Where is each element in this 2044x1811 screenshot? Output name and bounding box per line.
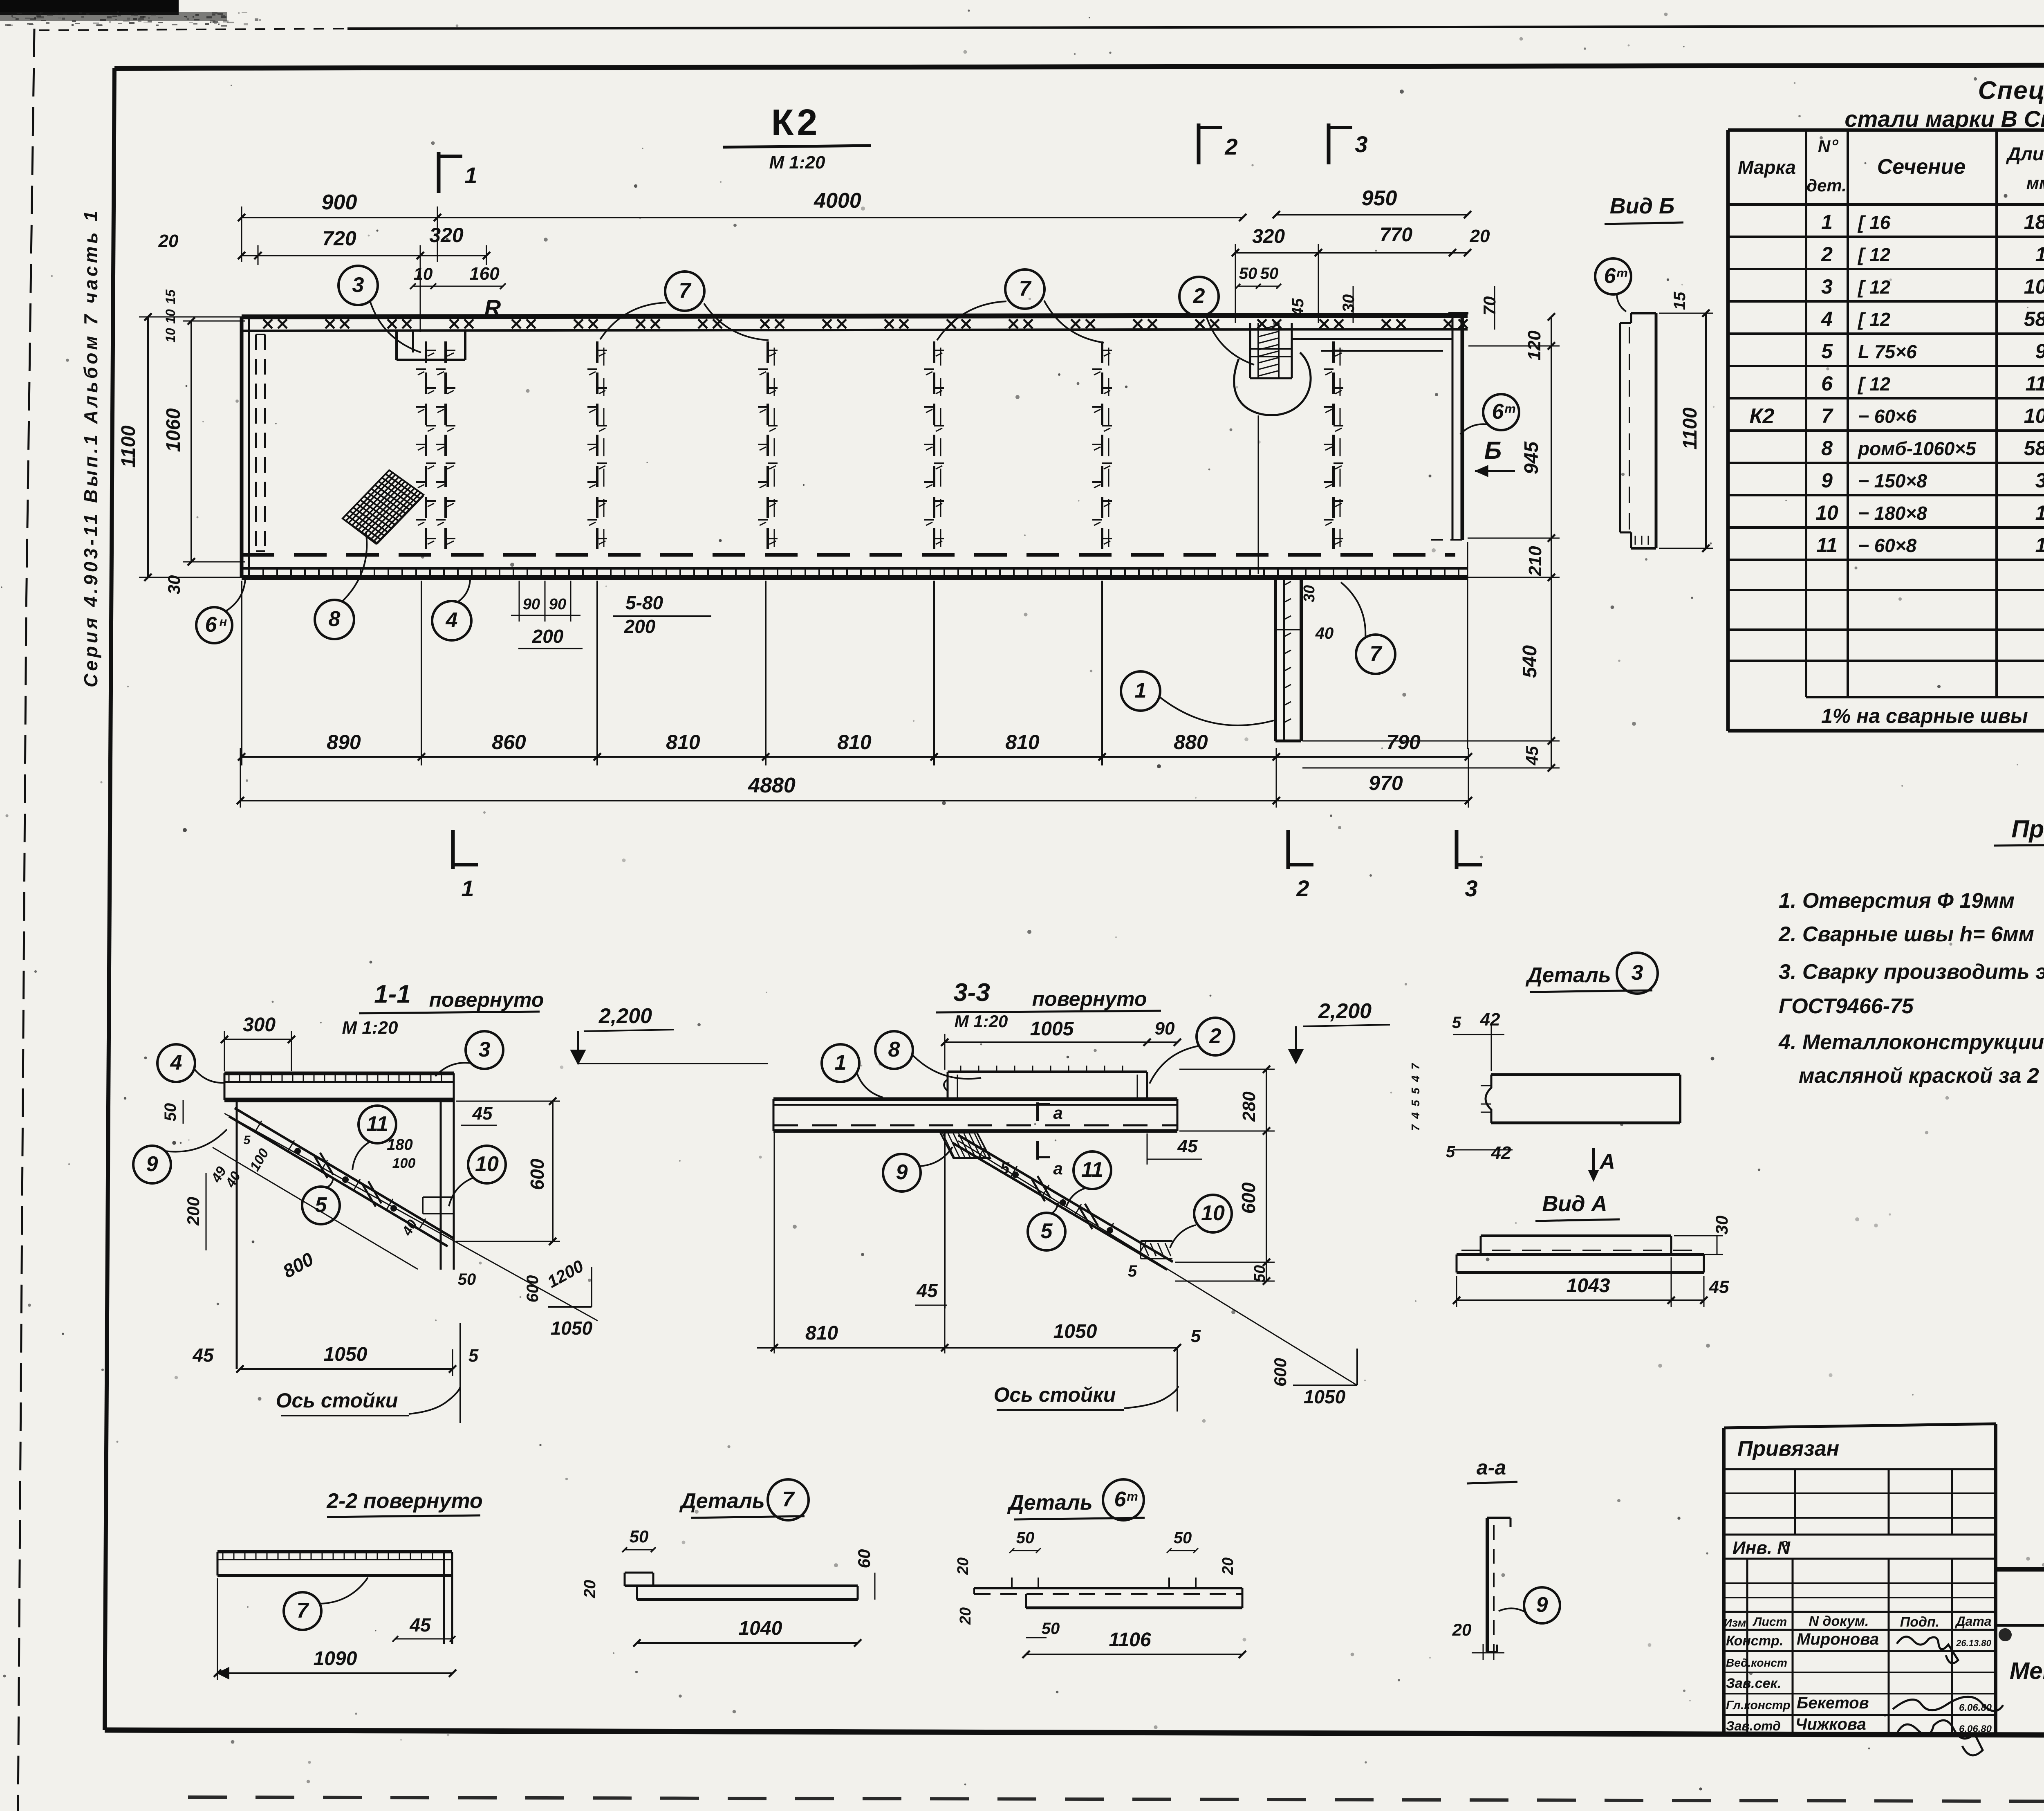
svg-text:50: 50: [630, 1527, 649, 1546]
svg-text:90: 90: [523, 596, 540, 613]
svg-text:42: 42: [1491, 1143, 1511, 1163]
svg-text:180: 180: [2035, 501, 2044, 524]
svg-text:810: 810: [837, 731, 872, 754]
svg-text:70: 70: [1480, 296, 1499, 316]
svg-text:8: 8: [1821, 437, 1833, 460]
svg-text:30: 30: [1712, 1216, 1731, 1235]
svg-text:5810: 5810: [2024, 437, 2044, 460]
svg-text:Подп.: Подп.: [1900, 1614, 1939, 1630]
svg-text:повернуто: повернуто: [429, 988, 544, 1011]
svg-text:8: 8: [888, 1038, 900, 1061]
svg-text:880: 880: [1174, 731, 1208, 754]
svg-text:− 60×8: − 60×8: [1858, 535, 1917, 556]
svg-text:9: 9: [146, 1152, 158, 1176]
svg-text:1050: 1050: [1304, 1386, 1346, 1407]
svg-text:Металлоконструкция: Металлоконструкция: [2010, 1658, 2044, 1684]
svg-text:200: 200: [532, 626, 564, 647]
svg-text:1088: 1088: [2024, 275, 2044, 298]
svg-text:А: А: [1599, 1150, 1615, 1174]
svg-text:1050: 1050: [1053, 1321, 1097, 1342]
svg-text:Вед.конст: Вед.конст: [1726, 1656, 1787, 1669]
svg-text:5: 5: [1409, 1088, 1422, 1094]
svg-text:890: 890: [327, 731, 361, 754]
svg-text:20: 20: [957, 1607, 974, 1625]
svg-text:1060: 1060: [163, 408, 184, 452]
svg-text:1040: 1040: [739, 1618, 782, 1639]
svg-text:N докум.: N докум.: [1809, 1614, 1869, 1629]
svg-text:6: 6: [205, 613, 217, 637]
svg-text:1: 1: [1135, 679, 1147, 702]
svg-text:770: 770: [1380, 224, 1412, 246]
svg-text:1: 1: [464, 162, 477, 188]
svg-text:Вид А: Вид А: [1542, 1192, 1607, 1216]
svg-text:810: 810: [666, 731, 700, 754]
svg-text:4880: 4880: [748, 774, 796, 797]
svg-text:20: 20: [581, 1580, 599, 1599]
svg-text:50: 50: [1239, 265, 1257, 283]
svg-text:45: 45: [916, 1280, 938, 1301]
svg-text:Миронова: Миронова: [1797, 1630, 1879, 1648]
svg-text:8: 8: [329, 607, 341, 631]
svg-text:3: 3: [1355, 131, 1367, 157]
svg-text:Ось стойки: Ось стойки: [276, 1389, 398, 1412]
svg-text:3: 3: [1632, 961, 1643, 985]
svg-text:2. Сварные швы h= 6мм: 2. Сварные швы h= 6мм: [1778, 922, 2034, 946]
svg-text:200: 200: [184, 1197, 203, 1226]
svg-text:т: т: [1616, 266, 1628, 280]
svg-text:11: 11: [366, 1112, 388, 1136]
svg-text:50: 50: [1042, 1620, 1060, 1638]
svg-text:Марка: Марка: [1738, 157, 1796, 178]
svg-text:45: 45: [472, 1104, 493, 1124]
svg-text:160: 160: [469, 264, 500, 284]
svg-text:4000: 4000: [814, 189, 861, 213]
svg-text:[ 12: [ 12: [1857, 276, 1891, 298]
svg-text:100: 100: [392, 1156, 416, 1171]
svg-text:6.06.80: 6.06.80: [1959, 1723, 1992, 1735]
svg-text:3: 3: [352, 273, 364, 297]
svg-text:7: 7: [1409, 1063, 1422, 1070]
svg-text:− 60×6: − 60×6: [1858, 406, 1917, 427]
svg-text:1860: 1860: [2024, 211, 2044, 233]
svg-text:45: 45: [1522, 746, 1542, 765]
svg-text:[ 12: [ 12: [1857, 309, 1891, 330]
svg-text:[ 16: [ 16: [1857, 212, 1891, 233]
svg-text:50: 50: [458, 1270, 476, 1288]
svg-text:ромб-1060×5: ромб-1060×5: [1857, 438, 1977, 459]
svg-text:Длина,: Длина,: [2006, 143, 2044, 164]
svg-text:5: 5: [1409, 1100, 1422, 1106]
svg-text:дет.: дет.: [1806, 176, 1847, 195]
svg-text:600: 600: [1238, 1182, 1259, 1214]
svg-text:− 180×8: − 180×8: [1858, 503, 1927, 524]
svg-text:повернуто: повернуто: [1032, 987, 1147, 1010]
svg-text:Привязан: Привязан: [1737, 1437, 1839, 1461]
svg-text:1: 1: [835, 1051, 847, 1075]
svg-text:100: 100: [2035, 534, 2044, 557]
svg-text:[ 12: [ 12: [1857, 244, 1891, 265]
svg-text:Деталь: Деталь: [679, 1489, 765, 1513]
svg-text:15: 15: [1671, 292, 1689, 310]
svg-text:5: 5: [1000, 1159, 1010, 1177]
svg-text:2: 2: [1224, 134, 1237, 159]
svg-text:[ 12: [ 12: [1857, 373, 1891, 395]
svg-text:300: 300: [2035, 469, 2044, 492]
svg-text:10: 10: [163, 328, 178, 343]
svg-text:5: 5: [1128, 1262, 1137, 1280]
svg-text:6: 6: [1492, 400, 1504, 424]
svg-text:600: 600: [524, 1275, 542, 1303]
svg-text:7: 7: [1370, 642, 1383, 666]
svg-text:мм: мм: [2026, 173, 2044, 193]
svg-text:Примечания:: Примечания:: [2011, 815, 2044, 843]
svg-text:2: 2: [1209, 1024, 1221, 1048]
svg-text:50: 50: [161, 1103, 179, 1122]
svg-text:5-80: 5-80: [625, 592, 663, 613]
svg-text:3: 3: [479, 1038, 491, 1061]
svg-text:Сечение: Сечение: [1877, 155, 1966, 179]
svg-text:26.13.80: 26.13.80: [1956, 1638, 1991, 1648]
svg-text:9: 9: [1536, 1593, 1548, 1617]
svg-text:4: 4: [446, 608, 458, 632]
svg-text:45: 45: [1177, 1136, 1198, 1156]
svg-text:R: R: [484, 295, 501, 321]
svg-text:7: 7: [297, 1599, 309, 1622]
svg-text:а-а: а-а: [1477, 1456, 1506, 1479]
svg-text:5: 5: [468, 1346, 479, 1366]
svg-text:1: 1: [461, 875, 474, 901]
svg-text:7: 7: [782, 1488, 795, 1511]
svg-text:900: 900: [322, 191, 357, 214]
svg-text:45: 45: [1709, 1277, 1729, 1297]
svg-text:810: 810: [1005, 731, 1040, 754]
svg-text:320: 320: [1252, 226, 1285, 247]
svg-text:90: 90: [549, 596, 566, 613]
svg-text:20: 20: [1470, 226, 1490, 246]
svg-text:9: 9: [1821, 469, 1833, 492]
svg-text:45: 45: [409, 1614, 431, 1636]
svg-text:1: 1: [1821, 211, 1833, 233]
svg-text:90: 90: [1155, 1019, 1175, 1039]
svg-text:1106: 1106: [2025, 372, 2044, 395]
svg-text:1090: 1090: [314, 1648, 357, 1670]
svg-text:50: 50: [1174, 1529, 1192, 1547]
svg-text:11: 11: [1816, 534, 1838, 557]
svg-text:Деталь: Деталь: [1525, 963, 1611, 987]
svg-text:Деталь: Деталь: [1007, 1491, 1093, 1515]
svg-text:7: 7: [1019, 277, 1032, 301]
svg-text:50: 50: [1251, 1265, 1269, 1282]
svg-text:10: 10: [475, 1152, 499, 1176]
svg-text:Бекетов: Бекетов: [1797, 1694, 1869, 1712]
svg-text:М 1:20: М 1:20: [955, 1012, 1008, 1031]
svg-text:2,200: 2,200: [598, 1004, 652, 1028]
svg-text:стали марки В Ст 3 кп 2 ГОСТ: стали марки В Ст 3 кп 2 ГОСТ 380-71: [1845, 106, 2044, 132]
svg-text:N: N: [1818, 137, 1831, 156]
svg-text:о: о: [1782, 1537, 1788, 1549]
svg-text:4: 4: [1409, 1112, 1422, 1119]
svg-text:5: 5: [244, 1133, 251, 1147]
svg-text:Б: Б: [1484, 437, 1502, 464]
svg-text:Зав.сек.: Зав.сек.: [1726, 1676, 1781, 1691]
svg-text:1040: 1040: [2024, 404, 2044, 427]
svg-text:1. Отверстия Ф 19мм: 1. Отверстия Ф 19мм: [1779, 889, 2015, 913]
svg-text:20: 20: [158, 231, 179, 251]
svg-text:масляной краской за 2 раза.: масляной краской за 2 раза.: [1799, 1064, 2044, 1088]
svg-text:4: 4: [1409, 1075, 1422, 1082]
svg-text:6: 6: [1821, 372, 1833, 395]
svg-text:11: 11: [1081, 1158, 1103, 1182]
svg-text:о: о: [1832, 135, 1839, 148]
svg-text:950: 950: [1362, 186, 1397, 210]
svg-text:540: 540: [1519, 645, 1541, 678]
svg-text:50: 50: [1260, 265, 1279, 283]
svg-text:5: 5: [1446, 1143, 1455, 1161]
svg-text:Серия 4.903-11 Вып.1 Альбом: Серия 4.903-11 Вып.1 Альбом 7 часть 1: [80, 208, 101, 687]
svg-text:5: 5: [315, 1193, 327, 1217]
svg-text:1-1: 1-1: [374, 980, 411, 1008]
svg-text:7: 7: [1821, 404, 1833, 427]
svg-text:− 150×8: − 150×8: [1858, 470, 1927, 491]
svg-text:60: 60: [854, 1549, 874, 1569]
svg-text:20: 20: [955, 1557, 972, 1575]
svg-text:5: 5: [1191, 1326, 1201, 1346]
svg-text:860: 860: [492, 731, 526, 754]
svg-text:4. Металлоконструкции огрунтов: 4. Металлоконструкции огрунтовать и окра…: [1778, 1030, 2044, 1054]
svg-text:20: 20: [1452, 1620, 1472, 1639]
svg-text:3. Сварку производить электрод: 3. Сварку производить электродами УОНИИ-…: [1779, 960, 2044, 984]
svg-text:280: 280: [1239, 1091, 1259, 1122]
svg-text:600: 600: [527, 1158, 548, 1190]
svg-text:210: 210: [1525, 546, 1545, 577]
svg-text:300: 300: [243, 1014, 276, 1036]
svg-text:100: 100: [2035, 243, 2044, 266]
svg-text:2: 2: [1296, 875, 1309, 901]
svg-text:9: 9: [896, 1160, 908, 1184]
svg-text:30: 30: [1301, 585, 1318, 602]
svg-text:L 75×6: L 75×6: [1858, 341, 1917, 362]
svg-text:1050: 1050: [551, 1317, 593, 1339]
svg-text:ГОСТ9466-75: ГОСТ9466-75: [1779, 994, 1914, 1018]
svg-text:1100: 1100: [1679, 407, 1701, 450]
svg-text:2,200: 2,200: [1318, 999, 1372, 1023]
svg-text:945: 945: [1521, 441, 1542, 474]
svg-text:1% на сварные швы: 1% на сварные швы: [1821, 705, 2028, 727]
svg-text:30: 30: [164, 575, 184, 595]
svg-text:Констр.: Констр.: [1726, 1633, 1783, 1649]
svg-text:7: 7: [1409, 1124, 1422, 1131]
svg-text:5: 5: [1452, 1014, 1461, 1032]
svg-text:320: 320: [429, 224, 464, 247]
svg-text:1005: 1005: [1030, 1018, 1074, 1040]
svg-text:М 1:20: М 1:20: [769, 153, 825, 173]
svg-text:5: 5: [1041, 1219, 1053, 1243]
svg-text:2: 2: [1193, 284, 1205, 308]
svg-text:3-3: 3-3: [953, 978, 990, 1007]
svg-text:10: 10: [1201, 1201, 1225, 1225]
svg-text:720: 720: [322, 227, 356, 250]
svg-text:15: 15: [163, 289, 178, 304]
svg-text:970: 970: [1369, 772, 1403, 794]
svg-text:Лист: Лист: [1753, 1615, 1787, 1629]
svg-text:10: 10: [1815, 501, 1838, 524]
svg-text:1106: 1106: [1109, 1629, 1151, 1651]
svg-text:960: 960: [2035, 340, 2044, 363]
svg-text:3: 3: [1465, 875, 1477, 901]
svg-text:6: 6: [1114, 1488, 1127, 1511]
svg-text:1043: 1043: [1567, 1275, 1610, 1297]
svg-text:790: 790: [1386, 731, 1421, 754]
svg-text:40: 40: [1315, 624, 1334, 642]
svg-text:Гл.констр: Гл.констр: [1726, 1699, 1791, 1712]
svg-text:50: 50: [1016, 1529, 1035, 1547]
svg-text:5850: 5850: [2024, 307, 2044, 330]
svg-text:45: 45: [192, 1344, 214, 1366]
svg-text:30: 30: [1340, 294, 1358, 313]
svg-text:20: 20: [1219, 1557, 1237, 1575]
svg-text:4: 4: [170, 1051, 182, 1075]
svg-text:810: 810: [805, 1322, 838, 1344]
svg-text:2: 2: [1821, 243, 1833, 266]
svg-text:Дата: Дата: [1954, 1614, 1991, 1629]
svg-text:42: 42: [1480, 1010, 1500, 1030]
svg-text:Зав.отд: Зав.отд: [1726, 1719, 1781, 1733]
svg-text:6: 6: [1604, 264, 1616, 288]
svg-text:4: 4: [1821, 307, 1833, 330]
svg-text:Чижкова: Чижкова: [1795, 1715, 1866, 1733]
svg-text:К2: К2: [771, 102, 821, 143]
svg-text:10: 10: [414, 264, 433, 283]
svg-text:М 1:20: М 1:20: [342, 1018, 398, 1038]
svg-text:2-2 повернуто: 2-2 повернуто: [326, 1489, 483, 1513]
svg-text:45: 45: [1289, 298, 1307, 317]
svg-text:т: т: [1127, 1489, 1138, 1504]
svg-text:600: 600: [1271, 1358, 1290, 1387]
svg-text:Изм: Изм: [1724, 1616, 1746, 1629]
svg-text:н: н: [220, 615, 227, 629]
svg-text:Спецификация: Спецификация: [1978, 76, 2044, 105]
svg-text:т: т: [1504, 402, 1516, 416]
svg-text:Вид Б: Вид Б: [1610, 194, 1675, 218]
svg-text:1100: 1100: [118, 425, 139, 468]
svg-text:5: 5: [1821, 340, 1833, 363]
svg-text:К2: К2: [1750, 404, 1775, 428]
svg-text:7: 7: [679, 279, 692, 303]
svg-text:а: а: [1053, 1103, 1062, 1122]
svg-text:200: 200: [624, 616, 656, 637]
svg-text:а: а: [1053, 1159, 1062, 1178]
svg-text:6.06.80: 6.06.80: [1959, 1702, 1992, 1713]
svg-text:1050: 1050: [324, 1344, 368, 1365]
svg-text:Ось стойки: Ось стойки: [994, 1383, 1116, 1406]
svg-text:3: 3: [1821, 275, 1833, 298]
